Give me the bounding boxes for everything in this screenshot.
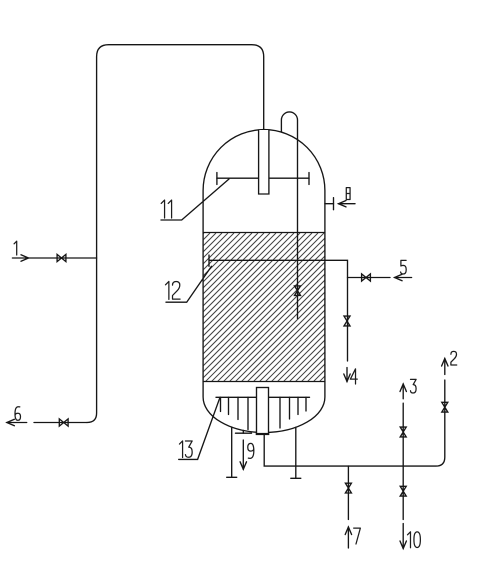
stream label 1 — [14, 241, 17, 255]
stream 7 drop leg from header — [347, 466, 349, 519]
equipment label 12 with leader — [165, 266, 211, 302]
internal pipe 12 with nozzle flange, exits right wall — [209, 255, 348, 361]
hatched packing section fill — [56, 233, 468, 381]
packing bottom boundary line — [203, 381, 325, 383]
arrow stream 3 — [400, 379, 416, 398]
bottom outlet tube (white-filled) — [256, 388, 269, 435]
stream 9 drain nozzle with flange and arrow — [236, 430, 254, 469]
valve on stream 3 — [400, 427, 406, 437]
arrow stream 7 — [345, 527, 360, 548]
valve on stream 4 drop leg — [344, 316, 350, 326]
packing top boundary line — [203, 232, 325, 234]
siphon U-tube over dome with internal dip leg — [281, 112, 297, 319]
valve on stream 6 — [59, 419, 68, 426]
distributor bar 11 inside dome — [217, 173, 309, 185]
valve on stream 10 — [400, 486, 406, 496]
stream label 6 — [15, 407, 21, 421]
stream 5 feed with valve into pipe 12 riser — [348, 260, 412, 281]
valve on stream 2 riser — [442, 402, 448, 412]
valve on stream 7 — [345, 483, 351, 493]
arrow stream 1 — [21, 255, 29, 261]
stream 8 nozzle on dome right — [325, 188, 355, 210]
right bottom leg with end bar — [291, 427, 301, 478]
valve on stream 1 — [57, 254, 66, 261]
arrow stream 2 — [442, 351, 457, 374]
top inlet tube (white-filled) — [259, 130, 269, 194]
stream 6 outlet line — [7, 422, 27, 424]
bottom header from outlet tube to stream 2 riser — [264, 380, 445, 466]
equipment label 11 with leader — [161, 179, 229, 220]
arrow stream 10 — [400, 524, 420, 549]
equipment label 13 with leader — [179, 397, 220, 459]
wire: feed pipe loop from stream 1 up and over to vessel top — [87, 45, 264, 423]
arrow stream 4 — [344, 368, 357, 385]
vessel shell: dome, cylinder walls, dished bottom — [203, 130, 325, 433]
stream 1 feed line — [12, 257, 96, 259]
left bottom leg with end bar — [227, 427, 237, 477]
arrow stream 6 — [7, 419, 14, 425]
bottom support grid 13 with hanging ticks — [216, 397, 310, 429]
stream 3 / 10 shared riser crossing header — [402, 403, 404, 519]
spray nozzle on dip leg — [295, 286, 301, 296]
